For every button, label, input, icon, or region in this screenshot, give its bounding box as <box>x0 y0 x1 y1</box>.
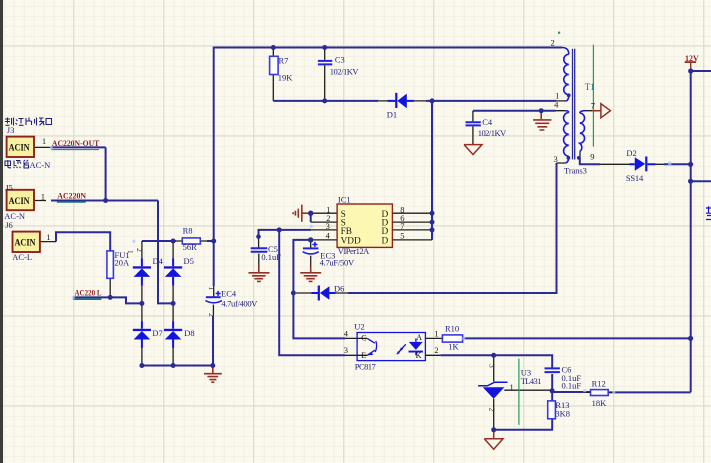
svg-text:2: 2 <box>551 37 555 47</box>
svg-text:4: 4 <box>326 231 331 241</box>
svg-text:0.1uF: 0.1uF <box>562 380 582 390</box>
svg-text:R10: R10 <box>445 324 459 334</box>
svg-text:1K: 1K <box>448 341 459 351</box>
svg-text:R8: R8 <box>183 226 193 236</box>
svg-text:AC-N: AC-N <box>4 211 25 221</box>
svg-text:7: 7 <box>591 101 595 111</box>
svg-text:19K: 19K <box>278 73 294 83</box>
svg-text:J3: J3 <box>7 125 15 135</box>
svg-text:ACIN: ACIN <box>9 143 30 154</box>
svg-text:D6: D6 <box>334 283 344 293</box>
svg-text:D: D <box>382 237 389 247</box>
svg-text:1: 1 <box>126 250 135 254</box>
svg-text:1: 1 <box>207 287 216 291</box>
svg-text:1: 1 <box>434 328 438 338</box>
svg-text:1: 1 <box>42 136 46 146</box>
svg-text:K: K <box>416 351 422 360</box>
svg-text:102/1KV: 102/1KV <box>330 66 360 76</box>
svg-text:4.7uF/50V: 4.7uF/50V <box>320 258 355 268</box>
svg-text:4.7uf/400V: 4.7uf/400V <box>221 299 258 309</box>
svg-text:PC817: PC817 <box>355 361 376 371</box>
svg-text:T1: T1 <box>585 82 595 92</box>
svg-text:R7: R7 <box>279 55 289 65</box>
svg-text:2: 2 <box>135 248 144 252</box>
svg-text:D5: D5 <box>184 256 194 266</box>
svg-text:IC1: IC1 <box>338 194 351 204</box>
svg-text:3: 3 <box>554 154 558 164</box>
svg-text:C: C <box>361 333 366 342</box>
svg-text:EC4: EC4 <box>221 288 237 298</box>
svg-text:18K: 18K <box>592 398 608 408</box>
svg-text:AC220 L: AC220 L <box>75 288 102 298</box>
svg-text:AC220N: AC220N <box>57 191 86 201</box>
svg-text:4: 4 <box>554 100 559 110</box>
svg-text:ACIN: ACIN <box>15 238 36 249</box>
svg-text:4: 4 <box>344 329 349 339</box>
svg-text:C3: C3 <box>335 54 345 64</box>
svg-text:A: A <box>416 333 422 342</box>
svg-text:Trans3: Trans3 <box>564 165 587 175</box>
svg-text:VIPer12A: VIPer12A <box>338 246 370 256</box>
svg-text:R12: R12 <box>592 379 606 389</box>
svg-text:D2: D2 <box>626 148 636 158</box>
svg-text:ACIN: ACIN <box>9 196 30 207</box>
svg-text:9: 9 <box>590 151 594 161</box>
svg-text:0.1uF: 0.1uF <box>261 252 281 262</box>
svg-text:VDD: VDD <box>341 237 361 247</box>
svg-text:1: 1 <box>510 382 514 392</box>
svg-text:2: 2 <box>488 408 497 412</box>
svg-text:102/1KV: 102/1KV <box>478 128 507 138</box>
svg-text:TL431: TL431 <box>521 376 542 386</box>
svg-text:1: 1 <box>41 191 45 201</box>
svg-text:D: D <box>382 227 389 237</box>
svg-text:J5: J5 <box>5 183 13 193</box>
svg-text:5: 5 <box>400 231 404 241</box>
svg-text:AC220N-OUT: AC220N-OUT <box>52 138 100 148</box>
svg-text:AC-L: AC-L <box>12 252 32 262</box>
svg-text:D8: D8 <box>184 328 194 338</box>
svg-text:2: 2 <box>434 345 438 355</box>
svg-text:3K8: 3K8 <box>555 409 570 419</box>
svg-text:FB: FB <box>341 227 352 237</box>
svg-text:3: 3 <box>344 345 348 355</box>
svg-text:3: 3 <box>488 364 497 368</box>
svg-text:C4: C4 <box>482 117 493 127</box>
svg-text:D4: D4 <box>153 256 164 266</box>
svg-text:D1: D1 <box>387 109 397 119</box>
svg-text:2: 2 <box>207 313 216 317</box>
svg-text:20A: 20A <box>115 258 131 268</box>
svg-text:12V: 12V <box>685 54 699 63</box>
svg-text:AC-N: AC-N <box>30 160 51 170</box>
svg-text:SS14: SS14 <box>626 173 644 183</box>
svg-text:1: 1 <box>46 232 50 242</box>
svg-text:J6: J6 <box>5 220 13 230</box>
svg-text:D7: D7 <box>152 328 162 338</box>
svg-text:56R: 56R <box>183 242 198 252</box>
svg-text:U2: U2 <box>354 322 364 332</box>
svg-text:E: E <box>361 351 366 360</box>
